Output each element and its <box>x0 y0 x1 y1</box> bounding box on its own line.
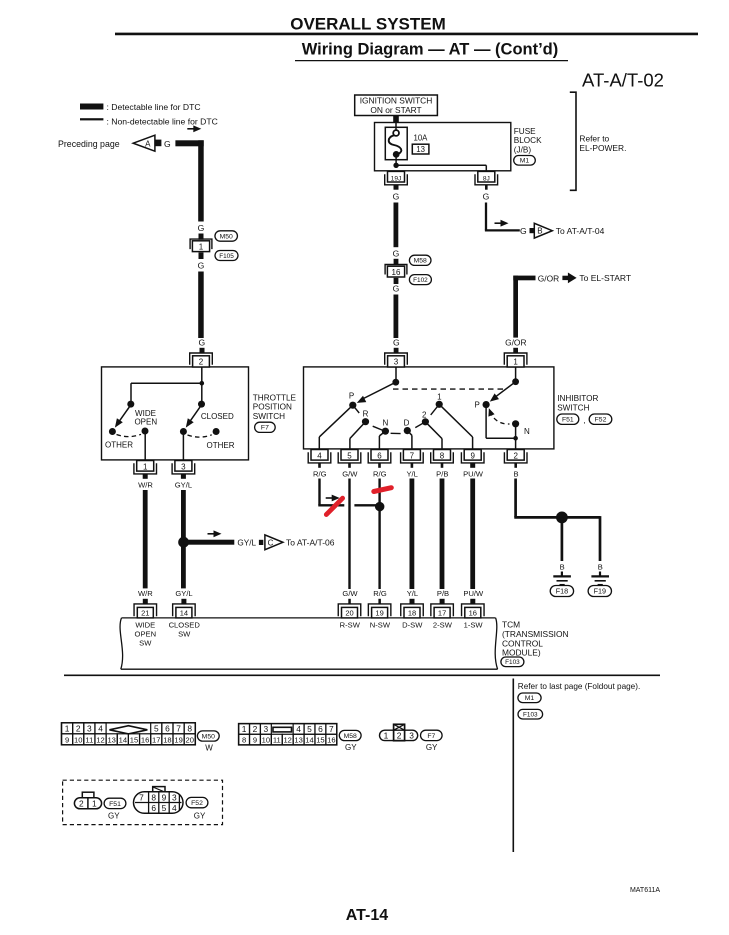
connector oval F7 (switch) <box>255 422 276 432</box>
svg-text:G: G <box>393 337 400 347</box>
svg-text:19: 19 <box>174 735 182 744</box>
svg-text:16: 16 <box>141 735 149 744</box>
svg-text:SWITCH: SWITCH <box>253 412 285 421</box>
svg-text:9: 9 <box>470 452 475 461</box>
svg-text:AT-A/T-02: AT-A/T-02 <box>582 70 664 91</box>
svg-text:Wiring Diagram — AT — (Cont’d): Wiring Diagram — AT — (Cont’d) <box>302 41 559 59</box>
contact N right <box>512 420 519 427</box>
contact P left <box>349 402 356 409</box>
svg-text:GY/L: GY/L <box>237 538 256 547</box>
svg-text:G: G <box>198 223 205 233</box>
triangle B terminal square <box>530 228 534 233</box>
connector face F52 <box>153 787 165 793</box>
svg-text:20: 20 <box>185 735 193 744</box>
svg-text:SW: SW <box>178 630 191 639</box>
TCM pin 20 connector <box>338 604 361 616</box>
footer separator rule <box>64 674 660 676</box>
svg-text:D-SW: D-SW <box>402 621 423 630</box>
wire: preceding page G horizontal+vertical thick to connector M50 <box>175 140 203 146</box>
svg-text:7: 7 <box>139 792 144 802</box>
wire stub above inline connector 16 <box>394 259 399 265</box>
svg-text:N: N <box>524 427 530 436</box>
page-connector triangle A (points left) <box>133 135 155 151</box>
svg-text:5: 5 <box>347 452 352 461</box>
svg-text:5: 5 <box>307 724 312 734</box>
inhibitor left rotor arm to P (arrow) <box>362 382 396 399</box>
wire pin3 contact down to pin 3 <box>182 432 184 461</box>
svg-text:2: 2 <box>253 724 258 734</box>
svg-text:,: , <box>583 416 585 425</box>
svg-text:8: 8 <box>440 452 445 461</box>
svg-text:Y/L: Y/L <box>407 589 418 598</box>
inhibitor right rotor wire <box>515 367 517 380</box>
wire 1 contact to pin 9 <box>439 404 472 437</box>
svg-text:19J: 19J <box>391 175 402 182</box>
connector face M50 <box>62 723 196 745</box>
svg-text:G: G <box>164 139 171 149</box>
svg-text:R/G: R/G <box>373 469 387 478</box>
svg-text:9: 9 <box>253 736 257 745</box>
svg-text:M58: M58 <box>344 733 357 740</box>
footer vertical divider <box>512 679 514 853</box>
svg-text:ON or START: ON or START <box>370 105 421 115</box>
svg-text:THROTTLE: THROTTLE <box>253 393 297 402</box>
svg-text:FUSE: FUSE <box>514 127 536 136</box>
wire GY/L branch to triangle C <box>184 540 235 545</box>
wire stub below inline connector 16 <box>394 278 399 284</box>
svg-text:9: 9 <box>65 735 69 744</box>
svg-text:SWITCH: SWITCH <box>557 403 589 412</box>
wire P right to pin 2 net <box>485 405 487 439</box>
contact N <box>382 428 389 435</box>
contact D <box>404 427 411 434</box>
svg-text:GY/L: GY/L <box>175 589 192 598</box>
svg-text:3: 3 <box>394 357 399 366</box>
svg-text:1: 1 <box>92 798 97 808</box>
inhibitor pin 2 connector <box>507 450 524 461</box>
fuse block terminal 8J <box>478 171 495 182</box>
TCM stub 18 <box>410 599 415 604</box>
connector oval F19 <box>588 586 611 597</box>
wire R/G pin6 to TCM 19 thin <box>378 479 380 590</box>
svg-text:2: 2 <box>513 452 518 461</box>
subtitle underline <box>295 60 568 62</box>
svg-text:6: 6 <box>151 803 156 813</box>
svg-text:To EL-START: To EL-START <box>579 273 631 283</box>
TCM pin 21 connector <box>134 604 157 616</box>
throttle pin 3 connector <box>175 461 192 472</box>
svg-text:GY: GY <box>194 811 206 820</box>
inhibitor right rotor node <box>512 378 519 385</box>
fuse block terminal 19J <box>388 171 405 182</box>
svg-text:3: 3 <box>87 723 92 733</box>
svg-text:R-SW: R-SW <box>340 621 361 630</box>
svg-text:17: 17 <box>438 609 446 618</box>
right rotor arm to P (arrow) <box>494 382 515 398</box>
svg-text:To AT-A/T-04: To AT-A/T-04 <box>556 226 605 236</box>
svg-text:6: 6 <box>318 724 323 734</box>
svg-text:A: A <box>145 140 151 149</box>
svg-text:B: B <box>598 563 603 572</box>
svg-text:17: 17 <box>152 735 160 744</box>
wire 2 contact to pin 8 <box>425 422 442 439</box>
svg-text:2: 2 <box>397 730 402 740</box>
fuse F13 10A <box>385 127 407 159</box>
connector oval F52 (switch) <box>589 414 612 424</box>
connector oval M50 (pinout) <box>197 731 219 741</box>
svg-text:OVERALL SYSTEM: OVERALL SYSTEM <box>290 15 446 34</box>
junction node on GY/L <box>178 537 189 548</box>
svg-text:5: 5 <box>162 803 167 813</box>
svg-text:G: G <box>393 191 400 201</box>
P arm stub <box>353 405 359 413</box>
inline connector 16 (M58/F102) <box>385 265 407 275</box>
closed switch: wire from node down <box>201 383 203 402</box>
svg-text:19: 19 <box>375 609 383 618</box>
svg-text:GY: GY <box>108 811 120 820</box>
wire Y/L pin7 to TCM 18 thick <box>410 479 415 590</box>
svg-text:F52: F52 <box>595 417 607 424</box>
svg-text:G: G <box>198 337 205 347</box>
wire B pin2 down and right <box>514 479 517 518</box>
dashed grouping box F51 F52 <box>63 780 223 824</box>
svg-text:To AT-A/T-06: To AT-A/T-06 <box>286 538 335 548</box>
inhibitor pin 8 connector <box>434 450 451 461</box>
inhibitor pin 7 connector <box>403 450 420 461</box>
svg-text:G/OR: G/OR <box>505 337 526 347</box>
svg-text:7: 7 <box>410 452 415 461</box>
svg-text:13: 13 <box>416 145 425 154</box>
inhibitor connector 3 <box>385 353 408 365</box>
wire wide-open contact to pin 1 <box>144 431 146 460</box>
throttle internal wire to wide-open switch <box>131 382 202 384</box>
connector oval F51 (pinout) <box>104 798 126 808</box>
svg-text:F51: F51 <box>562 417 574 424</box>
inhibitor switch box <box>304 367 554 449</box>
svg-text:B: B <box>513 469 518 478</box>
wire R contact to pin 5 <box>350 422 366 439</box>
svg-text:: Detectable line for DTC: : Detectable line for DTC <box>107 102 201 112</box>
svg-text:3: 3 <box>409 730 414 740</box>
svg-text:GY: GY <box>426 743 438 752</box>
svg-text:PU/W: PU/W <box>463 589 484 598</box>
inhibitor pin 5 connector <box>341 450 358 461</box>
throttle position switch box <box>102 367 249 460</box>
connector face F7 <box>380 730 418 740</box>
svg-text:1: 1 <box>199 243 204 252</box>
svg-text:1: 1 <box>513 357 518 366</box>
svg-text:G/W: G/W <box>342 469 358 478</box>
svg-text:G: G <box>393 283 400 293</box>
connector oval M58 (pinout) <box>339 730 361 740</box>
ignition switch source box <box>355 95 438 116</box>
svg-text:G/OR: G/OR <box>538 273 559 283</box>
legend: detectable line sample <box>80 104 103 110</box>
connector oval M1 (footnote) <box>518 693 541 703</box>
1 arm stub <box>431 404 440 415</box>
svg-text:8: 8 <box>187 723 192 733</box>
inhibitor pin 9 connector <box>464 450 481 461</box>
svg-text:11: 11 <box>85 735 93 744</box>
svg-text:R: R <box>363 410 369 419</box>
closed switch common contact <box>198 401 205 408</box>
svg-text:GY: GY <box>345 743 357 752</box>
svg-text:F103: F103 <box>505 659 520 666</box>
svg-text:13: 13 <box>107 735 115 744</box>
inhibitor pin 6 connector <box>371 450 388 461</box>
svg-text:OTHER: OTHER <box>207 441 235 450</box>
svg-text:B: B <box>560 563 565 572</box>
wire: G thick down to inhibitor switch pin 3 <box>394 295 399 339</box>
svg-text:1: 1 <box>384 730 389 740</box>
connector oval F102 <box>409 275 431 285</box>
svg-text:14: 14 <box>305 736 313 745</box>
svg-text:F103: F103 <box>523 712 538 719</box>
wire PU/W pin9 to TCM 16 thick <box>470 479 475 590</box>
svg-text:7: 7 <box>329 724 334 734</box>
ground stub F18 <box>561 572 563 577</box>
svg-text:16: 16 <box>392 268 401 277</box>
N arm stub <box>373 426 383 430</box>
svg-text:8: 8 <box>242 736 246 745</box>
svg-text:P: P <box>475 400 480 409</box>
contact P right <box>483 401 490 408</box>
connector oval M1 <box>514 156 536 166</box>
inhibitor connector 1 <box>504 353 527 365</box>
svg-text:F18: F18 <box>556 587 568 596</box>
svg-text:C: C <box>268 538 274 547</box>
dash between N and D <box>391 432 401 434</box>
svg-text:P/B: P/B <box>436 469 448 478</box>
svg-text:2: 2 <box>422 410 427 419</box>
throttle internal wire from pin 2 <box>201 367 203 383</box>
svg-text:10: 10 <box>262 736 270 745</box>
wire stub above inline connector 1 <box>199 234 204 240</box>
svg-text:OPEN: OPEN <box>135 630 157 639</box>
wide open switch WIDE OPEN contact <box>142 428 149 435</box>
2 arm stub <box>415 422 425 428</box>
connector face F51 <box>82 792 94 798</box>
svg-text:10A: 10A <box>414 133 429 142</box>
svg-text:(J/B): (J/B) <box>514 145 532 154</box>
TCM pin 18 connector <box>401 604 424 616</box>
junction node on pin2 net <box>513 436 518 441</box>
svg-text:GY/L: GY/L <box>175 481 192 490</box>
svg-text:18: 18 <box>408 609 416 618</box>
connector oval M50 <box>215 231 238 241</box>
wire: G thick vertical down to throttle position switch <box>198 272 204 339</box>
wire: G thick 19J down to connector M58 <box>394 203 399 248</box>
wire: G thin from 8J down and right to triangle B <box>485 203 487 231</box>
svg-text:F102: F102 <box>413 277 428 284</box>
arrow to EL-START <box>562 276 568 280</box>
svg-text:: Non-detectable line for DTC: : Non-detectable line for DTC <box>107 117 218 127</box>
svg-text:3: 3 <box>181 463 186 472</box>
svg-text:R/G: R/G <box>313 469 327 478</box>
svg-text:MODULE): MODULE) <box>502 648 541 658</box>
connector oval F103 (TCM) <box>501 657 524 667</box>
svg-text:M58: M58 <box>414 258 427 265</box>
TCM stub 21 <box>143 599 148 604</box>
svg-text:12: 12 <box>96 735 104 744</box>
connector oval M58 <box>409 255 431 265</box>
svg-text:CLOSED: CLOSED <box>169 621 201 630</box>
svg-text:2: 2 <box>76 723 81 733</box>
svg-text:W/R: W/R <box>138 481 153 490</box>
wire: G/OR thick elbow from EL-START to inhibitor pin 1 <box>513 276 518 338</box>
svg-text:10: 10 <box>74 735 82 744</box>
svg-text:18: 18 <box>163 735 171 744</box>
inline connector 1 (M50/F105) <box>190 239 212 249</box>
svg-text:1: 1 <box>437 393 442 402</box>
dashed throw arc wide-open switch <box>117 434 142 436</box>
flow arrow on 8J branch <box>495 222 503 224</box>
svg-text:AT-14: AT-14 <box>346 907 388 924</box>
svg-text:G: G <box>198 260 205 270</box>
TCM stub 16 <box>470 599 475 604</box>
wire stub ignition switch to fuse block <box>393 116 399 123</box>
svg-text:G/W: G/W <box>342 589 358 598</box>
svg-text:15: 15 <box>130 735 138 744</box>
svg-text:2: 2 <box>199 357 204 366</box>
contact R <box>362 418 369 425</box>
svg-text:Preceding page: Preceding page <box>58 139 120 149</box>
svg-text:1: 1 <box>143 463 148 472</box>
svg-text:21: 21 <box>141 609 149 618</box>
svg-text:Refer to last page (Foldout pa: Refer to last page (Foldout page). <box>518 682 640 691</box>
svg-text:OTHER: OTHER <box>105 441 133 450</box>
TCM pin 14 connector <box>173 604 196 616</box>
wire stub above throttle connector 2 <box>200 348 205 354</box>
svg-text:11: 11 <box>273 736 281 745</box>
connector oval F51 (switch) <box>557 414 579 424</box>
connector oval F103 (footnote) <box>518 709 543 719</box>
closed switch OTHER contact <box>213 428 220 435</box>
svg-text:5: 5 <box>154 723 159 733</box>
wire G/W pin5 to TCM 20 thin <box>348 479 350 590</box>
svg-text:4: 4 <box>317 452 322 461</box>
wire N contact to pin 6 <box>379 431 385 436</box>
svg-text:B: B <box>537 227 542 236</box>
svg-text:EL-POWER.: EL-POWER. <box>579 143 626 153</box>
svg-text:POSITION: POSITION <box>253 403 292 412</box>
dashed throw arc P to N <box>490 412 510 425</box>
svg-text:M50: M50 <box>220 233 233 240</box>
header rule <box>115 33 698 36</box>
legend: non-detectable line sample <box>80 118 103 120</box>
connector oval F18 <box>550 586 573 597</box>
svg-text:CLOSED: CLOSED <box>201 412 234 421</box>
TCM stub 14 <box>181 599 186 604</box>
svg-text:2: 2 <box>79 798 84 808</box>
connector face M58 <box>239 724 337 745</box>
svg-text:20: 20 <box>345 609 353 618</box>
svg-text:D: D <box>404 418 410 427</box>
connector oval F105 <box>215 251 238 261</box>
svg-text:N: N <box>383 418 389 427</box>
wire P contact to pin 4 <box>319 405 353 437</box>
svg-text:3: 3 <box>264 724 269 734</box>
fuse output node <box>395 154 397 165</box>
svg-text:4: 4 <box>172 803 177 813</box>
red mark crossing R/G pin6 wire <box>374 488 392 492</box>
wire B to ground F18 <box>561 517 564 561</box>
page-connector triangle B: To AT-A/T-04 <box>534 223 552 238</box>
svg-text:SW: SW <box>139 639 152 648</box>
svg-text:2-SW: 2-SW <box>433 621 453 630</box>
svg-text:1-SW: 1-SW <box>464 621 484 630</box>
wire stub above inhibitor connector 1 <box>513 348 518 354</box>
connector oval F52 (pinout) <box>186 797 208 807</box>
svg-text:9: 9 <box>162 792 167 802</box>
svg-text:M50: M50 <box>202 733 215 740</box>
refer bracket <box>570 92 576 190</box>
TCM stub 19 <box>378 599 381 604</box>
svg-text:F7: F7 <box>427 733 435 740</box>
wide open switch OTHER contact <box>109 428 116 435</box>
svg-text:3: 3 <box>172 792 177 802</box>
inhibitor left rotor node <box>392 379 399 386</box>
flow arrow on GY/L branch <box>208 533 216 535</box>
svg-text:R/G: R/G <box>373 589 387 598</box>
ground stub F19 <box>599 572 601 577</box>
svg-text:4: 4 <box>296 724 301 734</box>
svg-text:BLOCK: BLOCK <box>514 136 542 145</box>
red mark crossing R/G jumper <box>326 498 342 514</box>
wire P/B pin8 to TCM 17 thick <box>440 479 445 590</box>
TCM pin 17 connector <box>431 604 454 616</box>
flow arrow on R/G jumper <box>326 497 334 499</box>
wire stub above inhibitor connector 3 <box>394 348 399 354</box>
ground symbol F19 <box>591 575 609 577</box>
svg-text:INHIBITOR: INHIBITOR <box>557 394 598 403</box>
svg-text:15: 15 <box>316 736 324 745</box>
TCM pin 19 connector <box>368 604 391 616</box>
svg-text:N-SW: N-SW <box>370 621 391 630</box>
closed switch pin3 contact <box>180 428 187 435</box>
svg-text:16: 16 <box>327 736 335 745</box>
svg-text:14: 14 <box>180 609 188 618</box>
svg-text:G: G <box>393 248 400 258</box>
wire GY/L pin3 to TCM 14 thick <box>181 490 186 588</box>
closed switch arm (arrow toward pin3 contact) <box>189 406 201 423</box>
svg-text:F105: F105 <box>219 253 234 260</box>
svg-text:F51: F51 <box>109 801 121 808</box>
svg-text:G: G <box>520 226 527 236</box>
triangle C terminal square <box>259 540 263 545</box>
wire D contact to pin 7 <box>407 431 412 436</box>
throttle pin 1 connector <box>137 461 154 472</box>
fuse number 13 box <box>412 144 429 154</box>
svg-text:13: 13 <box>294 736 302 745</box>
svg-text:MAT611A: MAT611A <box>630 887 660 894</box>
mechanical link dashed line <box>393 388 507 390</box>
wire N to pin 2 <box>515 424 517 450</box>
wire into fuse from box edge <box>395 123 397 131</box>
svg-text:W: W <box>205 744 213 753</box>
wide open switch arm (arrow to OTHER) <box>118 406 130 423</box>
svg-text:P/B: P/B <box>437 589 449 598</box>
svg-text:F52: F52 <box>191 800 203 807</box>
wire stub below inline connector 1 <box>199 253 204 260</box>
svg-text:7: 7 <box>176 723 181 733</box>
fuse block (J/B) box <box>375 123 511 171</box>
svg-text:Refer to: Refer to <box>579 134 609 144</box>
svg-text:12: 12 <box>283 736 291 745</box>
wide open switch common contact <box>127 401 134 408</box>
inhibitor pin 4 connector <box>311 450 328 461</box>
svg-text:G: G <box>483 191 490 201</box>
